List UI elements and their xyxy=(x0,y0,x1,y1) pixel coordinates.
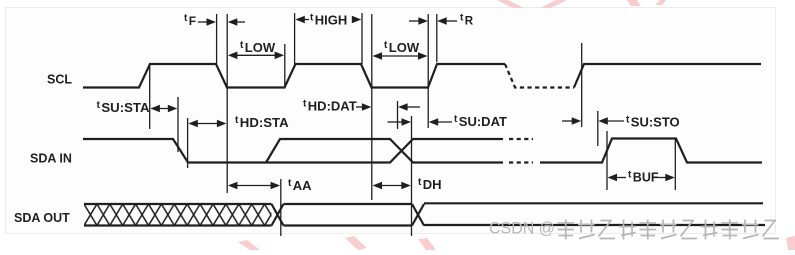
svg-text:CSDN @: CSDN @ xyxy=(489,219,555,238)
svg-text:F: F xyxy=(189,14,196,28)
svg-text:SDA IN: SDA IN xyxy=(30,152,72,166)
svg-text:SDA OUT: SDA OUT xyxy=(14,211,70,225)
svg-text:LOW: LOW xyxy=(245,40,276,55)
svg-text:DH: DH xyxy=(423,177,442,192)
svg-text:BUF: BUF xyxy=(633,171,659,185)
svg-text:AA: AA xyxy=(293,178,312,193)
svg-text:HD:DAT: HD:DAT xyxy=(308,99,357,114)
svg-text:SU:DAT: SU:DAT xyxy=(459,114,507,129)
svg-text:HD:STA: HD:STA xyxy=(240,115,289,130)
svg-text:R: R xyxy=(465,16,474,28)
svg-text:SU:STO: SU:STO xyxy=(631,115,680,130)
svg-text:SU:STA: SU:STA xyxy=(101,100,150,115)
svg-text:HIGH: HIGH xyxy=(315,13,348,28)
svg-text:LOW: LOW xyxy=(389,40,420,55)
svg-text:SCL: SCL xyxy=(47,73,72,87)
